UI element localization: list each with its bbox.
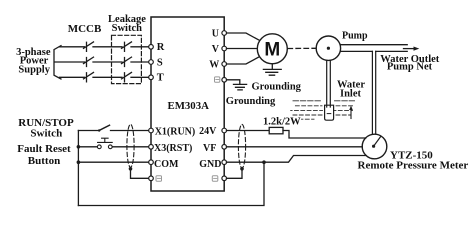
water surface hatching bbox=[291, 101, 355, 119]
wire PE terminal to ground symbol bbox=[227, 80, 240, 84]
wire S MCCB to leakage switch bbox=[93, 61, 122, 63]
wire to terminal R bbox=[131, 46, 149, 48]
shield drain wire to PE left bbox=[131, 169, 149, 179]
junction dot bus/COM bbox=[77, 160, 81, 164]
terminal PE left-bottom bbox=[149, 176, 154, 181]
wire W to motor bbox=[227, 57, 260, 64]
resistor 1.2k/2W bbox=[269, 127, 283, 133]
bottom return wire to control bus bbox=[78, 162, 264, 205]
shield drain wire to PE right bbox=[227, 169, 243, 179]
svg-text:S: S bbox=[157, 57, 163, 68]
svg-text:Pump Net: Pump Net bbox=[387, 62, 433, 73]
terminal X1 bbox=[149, 128, 154, 133]
junction dot bus/X3 bbox=[77, 145, 81, 149]
terminal PE right-bottom bbox=[222, 176, 227, 181]
svg-text:Grounding: Grounding bbox=[252, 82, 302, 93]
pin labels R S T bbox=[157, 42, 165, 83]
svg-text:Button: Button bbox=[28, 155, 60, 167]
svg-text:Switch: Switch bbox=[30, 127, 62, 139]
terminal 24V bbox=[222, 128, 227, 133]
label Fault Reset Button bbox=[17, 143, 71, 167]
svg-text:VF: VF bbox=[203, 143, 216, 154]
leakage switch pole 1 bbox=[122, 42, 132, 51]
water outlet pipe top line bbox=[340, 44, 407, 46]
label RUN/STOP Switch bbox=[18, 117, 74, 139]
leakage switch pole 2 bbox=[122, 57, 132, 66]
terminal S bbox=[149, 60, 154, 65]
shield drain dot right bbox=[240, 167, 244, 171]
pump circle bbox=[316, 36, 340, 60]
MCCB breaker pole 1 bbox=[84, 42, 94, 51]
wire button to X3 bbox=[112, 146, 149, 148]
wire to terminal S bbox=[131, 61, 149, 63]
terminal U bbox=[222, 31, 227, 36]
svg-text:X3(RST): X3(RST) bbox=[154, 143, 192, 154]
inlet flow up-arrow bbox=[350, 109, 352, 119]
wire R MCCB to leakage switch bbox=[93, 46, 122, 48]
label 3-phase Power Supply bbox=[16, 47, 51, 75]
wire U to motor bbox=[227, 33, 260, 40]
wire R from supply to MCCB bbox=[60, 46, 85, 48]
terminal GND bbox=[222, 160, 227, 165]
svg-text:Grounding: Grounding bbox=[226, 96, 276, 107]
terminal W bbox=[222, 62, 227, 67]
terminal V bbox=[222, 46, 227, 51]
svg-text:R: R bbox=[157, 42, 165, 53]
water outlet pipe bottom line bbox=[340, 50, 407, 52]
PE mark grey square bbox=[215, 77, 220, 82]
wire T from supply to MCCB bbox=[60, 76, 85, 78]
pin labels U V W bbox=[209, 28, 219, 70]
shield drain dot left bbox=[129, 167, 133, 171]
leakage switch dashed box bbox=[112, 35, 142, 83]
foot valve strainer bbox=[325, 105, 334, 120]
brace of 3-phase supply bbox=[54, 46, 61, 79]
wire S from supply to MCCB bbox=[55, 61, 85, 63]
grounding symbol at PE bbox=[234, 84, 247, 90]
terminal T bbox=[149, 75, 154, 80]
svg-text:1.2k/2W: 1.2k/2W bbox=[263, 116, 301, 127]
svg-text:MCCB: MCCB bbox=[68, 23, 102, 35]
svg-text:Inlet: Inlet bbox=[340, 88, 362, 99]
pin labels X1(RUN) X3(RST) COM bbox=[154, 126, 195, 169]
PE mark grey square right-bottom bbox=[212, 176, 218, 182]
label Leakage Switch bbox=[108, 14, 146, 34]
pin labels 24V VF GND bbox=[199, 126, 221, 170]
wire T MCCB to leakage switch bbox=[93, 76, 122, 78]
svg-text:W: W bbox=[209, 59, 219, 70]
wire VF to meter bbox=[227, 146, 363, 148]
wire switch to X1 bbox=[111, 130, 149, 132]
svg-text:Remote Pressure Meter: Remote Pressure Meter bbox=[358, 160, 469, 172]
wire V to motor bbox=[227, 48, 258, 50]
suction pipe from pump down bbox=[327, 60, 331, 107]
wire 24V to resistor bbox=[227, 130, 270, 132]
terminal PE right bbox=[222, 78, 227, 83]
svg-text:Switch: Switch bbox=[112, 23, 142, 34]
meter needle bbox=[374, 136, 381, 146]
svg-text:COM: COM bbox=[154, 159, 179, 170]
svg-text:T: T bbox=[157, 73, 164, 84]
svg-text:24V: 24V bbox=[199, 126, 217, 137]
left control bus vertical bbox=[77, 131, 79, 206]
PE mark grey square left bbox=[156, 176, 162, 182]
inverter EM303A box bbox=[151, 17, 224, 191]
svg-text:V: V bbox=[212, 44, 220, 55]
svg-text:Supply: Supply bbox=[18, 64, 50, 75]
terminal X3 bbox=[149, 145, 154, 150]
terminal R bbox=[149, 45, 154, 50]
terminal COM bbox=[149, 160, 154, 165]
pressure meter circle bbox=[362, 134, 387, 159]
dashed shaft link motor to pump bbox=[288, 47, 316, 49]
label Water Outlet / Pump Net bbox=[380, 54, 440, 73]
fault reset pushbutton symbol bbox=[78, 146, 97, 148]
wire resistor to meter bbox=[283, 131, 366, 139]
svg-text:X1(RUN): X1(RUN) bbox=[155, 126, 196, 137]
svg-text:Pump: Pump bbox=[342, 31, 368, 42]
MCCB breaker pole 2 bbox=[84, 57, 94, 66]
wire GND to meter bbox=[227, 156, 367, 163]
label Water Inlet bbox=[337, 80, 365, 100]
svg-text:M: M bbox=[264, 40, 280, 61]
motor M circle bbox=[257, 34, 287, 64]
junction dot GND/bottom return bbox=[262, 160, 266, 164]
RUN/STOP switch symbol bbox=[78, 130, 99, 132]
svg-text:GND: GND bbox=[199, 159, 221, 170]
flow arrow bbox=[404, 48, 416, 50]
svg-text:U: U bbox=[212, 28, 219, 39]
terminal VF bbox=[222, 145, 227, 150]
MCCB breaker pole 3 bbox=[84, 72, 94, 81]
svg-text:EM303A: EM303A bbox=[168, 100, 210, 112]
wire COM bbox=[78, 161, 148, 163]
svg-text:Fault Reset: Fault Reset bbox=[17, 143, 71, 155]
wire to terminal T bbox=[131, 76, 149, 78]
shielded cable oval left bbox=[127, 124, 134, 167]
motor ground bbox=[263, 64, 281, 75]
sensing pipe down to pressure meter bbox=[372, 51, 375, 134]
pump hub dot bbox=[327, 47, 330, 50]
shielded cable oval right bbox=[238, 124, 245, 168]
leakage switch pole 3 bbox=[122, 72, 132, 81]
